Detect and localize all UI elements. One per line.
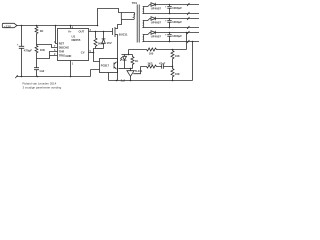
diode D4 UF4007 [151, 31, 155, 35]
wire stage3 minus to bottom rail [192, 41, 194, 43]
wire V+ pin 8 [70, 26, 72, 29]
capacitor C3 1000uF [169, 4, 171, 6]
zener D1 15V [102, 32, 112, 49]
svg-text:1000µF: 1000µF [172, 34, 182, 38]
wire end marks [187, 17, 189, 29]
capacitor C1 470uF [17, 26, 33, 77]
svg-text:THR: THR [59, 50, 65, 54]
svg-text:15V: 15V [107, 41, 112, 45]
resistor R5 10K upper divider [171, 50, 180, 67]
svg-text:NE555: NE555 [72, 38, 81, 42]
svg-text:10K: 10K [40, 48, 46, 52]
wire trig/thr jumper [37, 52, 58, 59]
opto U2 PC817 [91, 59, 118, 81]
wire GND pin 1 [70, 61, 72, 77]
capacitor C2 1n2 [34, 59, 45, 77]
resistor R8 3K3 [141, 62, 160, 69]
node top rail junctions [21, 25, 23, 27]
svg-text:CV: CV [81, 50, 85, 54]
svg-text:GND: GND [65, 54, 71, 58]
capacitor C4 1000uF [169, 18, 171, 20]
wire stage3 bottom [143, 41, 199, 43]
wire stage2 top lead [143, 19, 151, 21]
transformer secondary 1 [142, 7, 145, 14]
wire gate node [96, 48, 104, 50]
resistor R7 1K [131, 55, 138, 69]
svg-text:V+: V+ [68, 30, 72, 34]
svg-text:100: 100 [149, 51, 154, 55]
svg-text:OUT: OUT [79, 30, 85, 34]
resistor R4 100 [129, 48, 187, 55]
svg-text:TRIG: TRIG [59, 54, 65, 58]
connector J1 12V input [2, 23, 17, 28]
resistor R1 1K [35, 26, 44, 45]
op 555 U1 box [58, 29, 89, 61]
wire bottom rail right [109, 80, 193, 82]
capacitor C6 47nF [159, 62, 173, 69]
wire ground rail left [17, 76, 91, 78]
svg-text:DISCHG: DISCHG [59, 46, 69, 50]
svg-text:+: + [17, 42, 19, 46]
pin numbers U1 [54, 27, 92, 66]
wire end marks [187, 31, 189, 43]
wire reset to rail [56, 26, 58, 44]
transformer TR1 primary [121, 1, 139, 42]
wire top rail [17, 25, 98, 27]
transistor Q1 BUZ11 [113, 20, 128, 81]
svg-text:UF4007: UF4007 [151, 6, 162, 10]
svg-text:TR1: TR1 [132, 1, 138, 5]
wire sense from stage3 plus [186, 32, 188, 34]
wire stage2 bottom [143, 27, 199, 29]
wire stage3 top lead [143, 33, 151, 35]
resistor R2 10K [35, 45, 46, 59]
transformer secondary 2 [142, 21, 145, 28]
capacitor C5 1000uF [169, 32, 171, 34]
wire OUT pin 3 [89, 31, 113, 33]
wire discharge [37, 45, 58, 48]
wire led node bottom [119, 68, 133, 70]
svg-text:470µF: 470µF [24, 48, 32, 52]
wire stage1 top lead [143, 5, 151, 7]
wire stage1 bottom [143, 13, 199, 15]
wire end marks [187, 3, 189, 15]
svg-text:1n2: 1n2 [39, 69, 44, 73]
note credit text [23, 82, 62, 90]
diode D3 UF4007 [151, 17, 155, 21]
svg-text:TL431: TL431 [135, 69, 143, 73]
svg-text:1000µF: 1000µF [172, 6, 182, 10]
led D5 [120, 55, 126, 69]
wire primary feed [98, 9, 122, 26]
diode D2 UF4007 [151, 3, 155, 7]
svg-text:10K: 10K [175, 72, 180, 76]
svg-text:+12V: +12V [4, 24, 12, 28]
svg-text:3 voudige panelmeter voeding: 3 voudige panelmeter voeding [23, 86, 62, 90]
svg-text:1000µF: 1000µF [172, 20, 182, 24]
svg-text:BUZ11: BUZ11 [119, 33, 128, 37]
svg-text:UF4007: UF4007 [151, 20, 162, 24]
svg-text:UF4007: UF4007 [151, 34, 162, 38]
transformer secondary 3 [142, 35, 145, 42]
svg-text:1K: 1K [135, 59, 138, 63]
svg-text:RST: RST [59, 42, 65, 46]
svg-text:47nF: 47nF [159, 62, 166, 66]
svg-text:3K3: 3K3 [148, 62, 153, 66]
wire cv to opto [94, 49, 100, 62]
resistor R3 56R [94, 32, 104, 49]
wire led node top [122, 54, 133, 56]
regulator U3 TL431 [121, 67, 143, 83]
svg-text:PC817: PC817 [101, 63, 110, 67]
resistor R6 10K lower divider [171, 66, 180, 81]
svg-text:10K: 10K [175, 54, 180, 58]
